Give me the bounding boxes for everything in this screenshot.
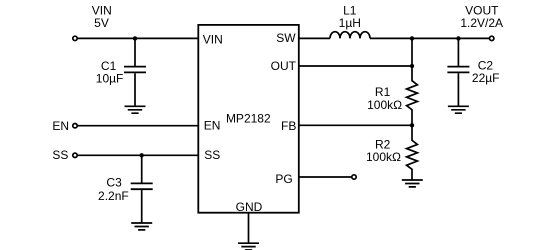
svg-text:2.2nF: 2.2nF — [98, 189, 129, 203]
svg-text:1µH: 1µH — [339, 16, 361, 30]
svg-text:SS: SS — [204, 148, 220, 162]
svg-text:PG: PG — [275, 172, 292, 186]
svg-text:5V: 5V — [94, 16, 109, 30]
svg-text:10µF: 10µF — [96, 72, 124, 86]
svg-text:EN: EN — [52, 119, 69, 133]
svg-text:100kΩ: 100kΩ — [366, 150, 401, 164]
svg-text:GND: GND — [236, 200, 263, 214]
svg-text:SW: SW — [276, 31, 296, 45]
svg-text:MP2182: MP2182 — [226, 112, 271, 126]
svg-text:100kΩ: 100kΩ — [367, 98, 402, 112]
svg-text:SS: SS — [52, 148, 68, 162]
svg-text:VIN: VIN — [203, 33, 223, 47]
svg-text:OUT: OUT — [271, 59, 297, 73]
svg-text:C3: C3 — [106, 176, 122, 190]
svg-text:1.2V/2A: 1.2V/2A — [460, 16, 503, 30]
svg-text:EN: EN — [204, 119, 221, 133]
svg-text:FB: FB — [281, 119, 296, 133]
svg-text:22µF: 22µF — [472, 71, 500, 85]
